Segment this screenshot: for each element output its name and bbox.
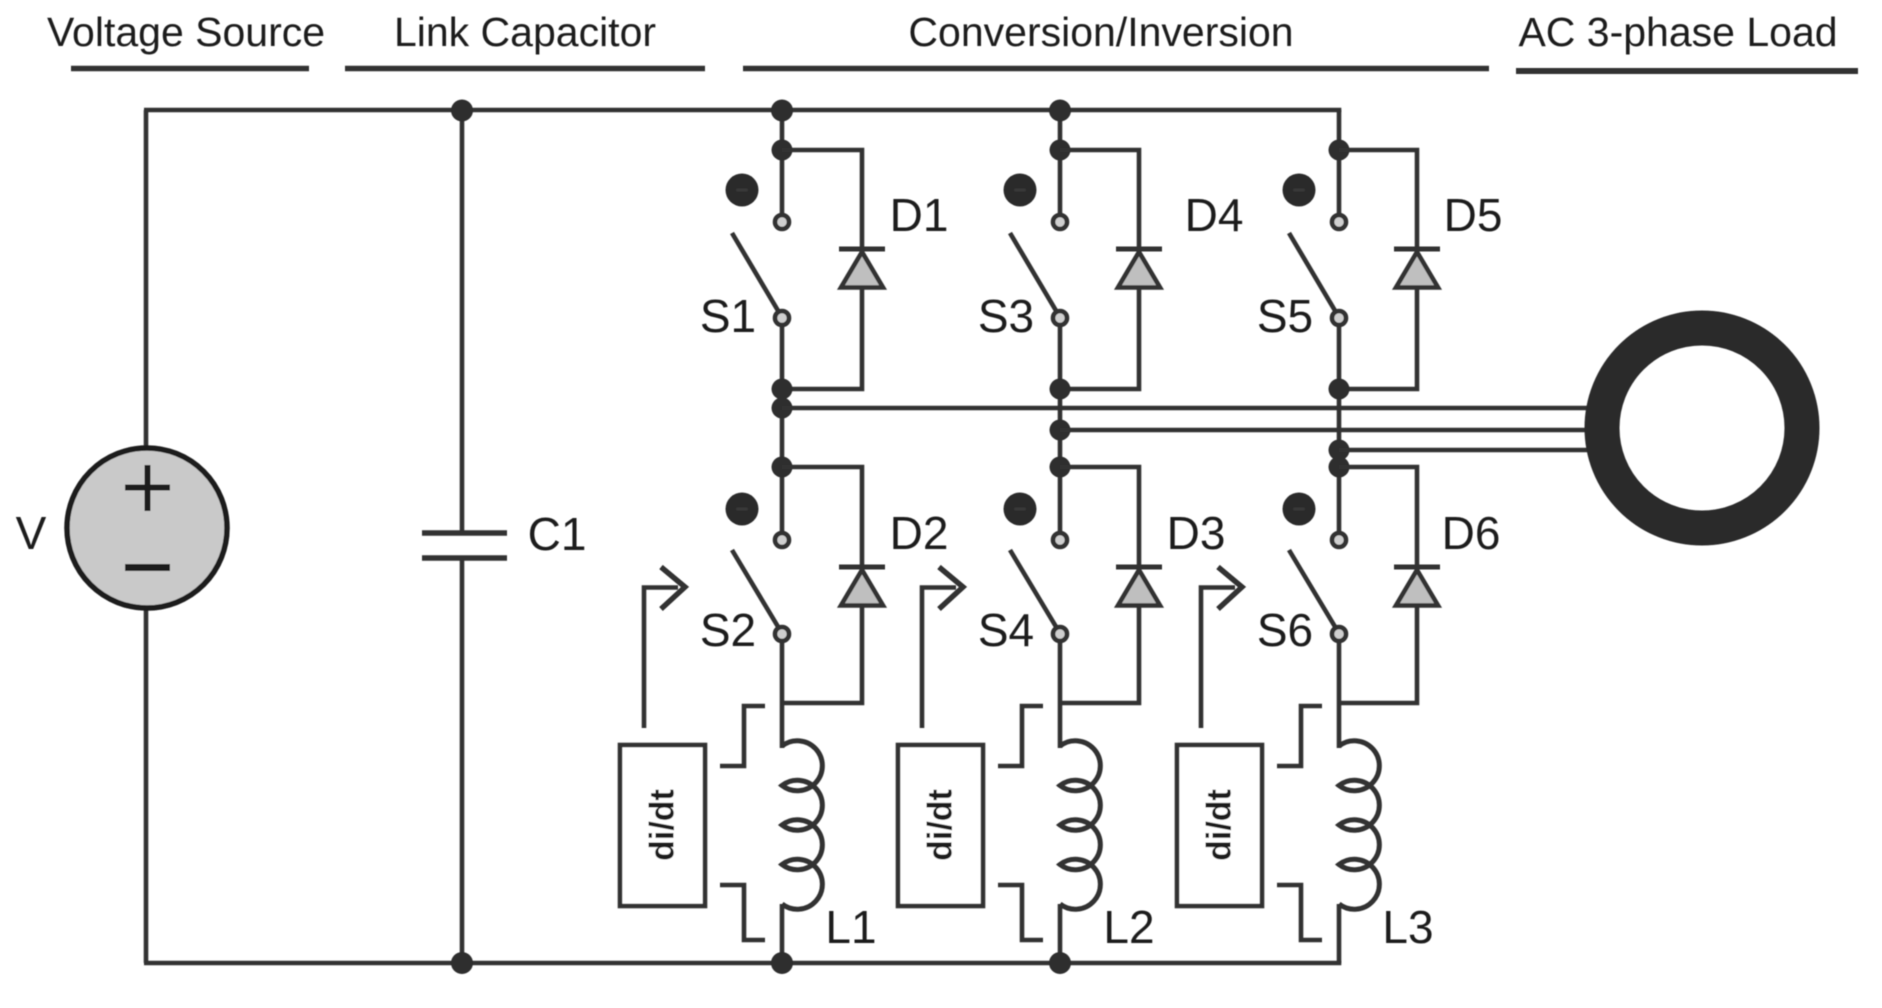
svg-text:D6: D6 — [1442, 507, 1501, 559]
coupling bracket upper leg3 — [1277, 706, 1322, 766]
svg-text:L3: L3 — [1382, 901, 1433, 953]
coupling bracket lower leg1 — [720, 885, 765, 940]
wire leg1 below switch S1 — [780, 325, 785, 535]
wire leg3 below switch S5 — [1337, 325, 1342, 535]
di/dt arrow leg3 — [1201, 567, 1242, 728]
node phase C tap — [1329, 440, 1350, 461]
diode D1 — [782, 150, 948, 389]
svg-text:D5: D5 — [1444, 189, 1503, 241]
di/dt sensor block leg3 — [1177, 745, 1262, 906]
junction dot leg2 upper diode return — [1050, 379, 1071, 400]
inductor L2 — [1060, 741, 1155, 953]
wire top DC bus — [144, 108, 1341, 113]
svg-text:D1: D1 — [890, 189, 949, 241]
wire leg3 below switch S6 — [1337, 641, 1342, 748]
junction dot leg1 upper diode return — [772, 379, 793, 400]
wire phase C to load — [1339, 448, 1594, 452]
switch S5 — [1257, 174, 1346, 343]
voltage source V (circle) — [67, 448, 227, 608]
switch S3 — [978, 174, 1067, 343]
voltage source plus sign — [125, 465, 170, 511]
junction dot leg1 bottom bus — [771, 952, 793, 974]
section underline Voltage Source — [71, 66, 309, 72]
wire leg3 upper vertical — [1337, 110, 1342, 216]
svg-text:S5: S5 — [1257, 290, 1313, 342]
svg-text:S1: S1 — [700, 290, 756, 342]
svg-text:S6: S6 — [1257, 604, 1313, 656]
coupling bracket upper leg1 — [720, 706, 765, 766]
svg-text:Voltage Source: Voltage Source — [47, 9, 325, 55]
diode D4 — [1060, 150, 1243, 389]
junction dot leg2 upper diode branch — [1050, 140, 1071, 161]
wire leg2 below switch S3 — [1058, 325, 1063, 535]
junction dot leg2 bottom bus — [1049, 952, 1071, 974]
svg-text:C1: C1 — [528, 508, 587, 560]
junction dot leg3 upper diode return — [1329, 379, 1350, 400]
junction dot leg1 lower diode branch — [772, 457, 793, 478]
wire bottom DC bus — [144, 961, 1341, 966]
svg-text:L1: L1 — [825, 901, 876, 953]
di/dt arrow leg2 — [922, 567, 963, 728]
node phase A tap — [772, 398, 793, 419]
wire leg1 below switch S2 — [780, 641, 785, 748]
wire leg2 upper vertical — [1058, 110, 1063, 216]
section underline Conversion/Inversion — [743, 66, 1489, 72]
wire leg3 coil to bottom bus — [1337, 904, 1342, 963]
diode D6 — [1339, 467, 1500, 703]
coupling bracket lower leg3 — [1277, 885, 1322, 940]
svg-text:S3: S3 — [978, 290, 1034, 342]
wire leg2 below switch S4 — [1058, 641, 1063, 748]
section underline AC 3-phase Load — [1516, 68, 1858, 74]
junction dot leg2 top bus — [1049, 100, 1071, 122]
switch S2 — [700, 493, 789, 657]
svg-text:D2: D2 — [890, 507, 949, 559]
svg-text:V: V — [16, 507, 47, 559]
wire leg2 coil to bottom bus — [1058, 904, 1063, 963]
junction dot leg2 lower diode branch — [1050, 457, 1071, 478]
wire phase A to load — [782, 406, 1594, 410]
wire left vertical (source bottom lead) — [144, 606, 149, 963]
switch S4 — [978, 493, 1067, 657]
svg-text:di/dt: di/dt — [1201, 789, 1239, 861]
wire leg1 upper vertical — [780, 110, 785, 216]
svg-text:di/dt: di/dt — [644, 789, 682, 861]
di/dt sensor block leg2 — [898, 745, 983, 906]
svg-text:Link Capacitor: Link Capacitor — [394, 9, 656, 55]
diode D5 — [1339, 150, 1502, 389]
wire left vertical (source top lead) — [144, 110, 149, 450]
coupling bracket upper leg2 — [998, 706, 1043, 766]
AC 3-phase load ring — [1602, 328, 1802, 528]
junction dot leg3 lower diode branch — [1329, 457, 1350, 478]
junction dot leg1 upper diode branch — [772, 140, 793, 161]
voltage source minus sign — [125, 564, 170, 571]
junction dot leg1 top bus — [771, 100, 793, 122]
junction dot bottom bus / C1 — [451, 952, 473, 974]
svg-text:D3: D3 — [1167, 507, 1226, 559]
wire capacitor bottom lead — [460, 560, 465, 963]
svg-text:S2: S2 — [700, 604, 756, 656]
switch S6 — [1257, 493, 1346, 657]
svg-text:D4: D4 — [1185, 189, 1244, 241]
junction dot leg3 upper diode branch — [1329, 140, 1350, 161]
inductor L3 — [1339, 741, 1434, 953]
section underline Link Capacitor — [345, 66, 705, 72]
svg-text:di/dt: di/dt — [922, 789, 960, 861]
node phase B tap — [1050, 420, 1071, 441]
coupling bracket lower leg2 — [998, 885, 1043, 940]
switch S1 — [700, 174, 789, 343]
wire phase B to load — [1060, 428, 1594, 432]
wire leg1 coil to bottom bus — [780, 904, 785, 963]
di/dt arrow leg1 — [644, 567, 685, 728]
diode D3 — [1060, 467, 1225, 703]
svg-text:L2: L2 — [1103, 901, 1154, 953]
di/dt sensor block leg1 — [620, 745, 705, 906]
wire capacitor top lead — [460, 110, 465, 531]
svg-text:S4: S4 — [978, 604, 1034, 656]
svg-text:Conversion/Inversion: Conversion/Inversion — [908, 9, 1293, 55]
junction dot top bus / C1 — [451, 100, 473, 122]
diode D2 — [782, 467, 948, 703]
capacitor C1 plates — [422, 533, 507, 558]
inductor L1 — [782, 741, 877, 953]
svg-text:AC 3-phase Load: AC 3-phase Load — [1518, 9, 1837, 55]
